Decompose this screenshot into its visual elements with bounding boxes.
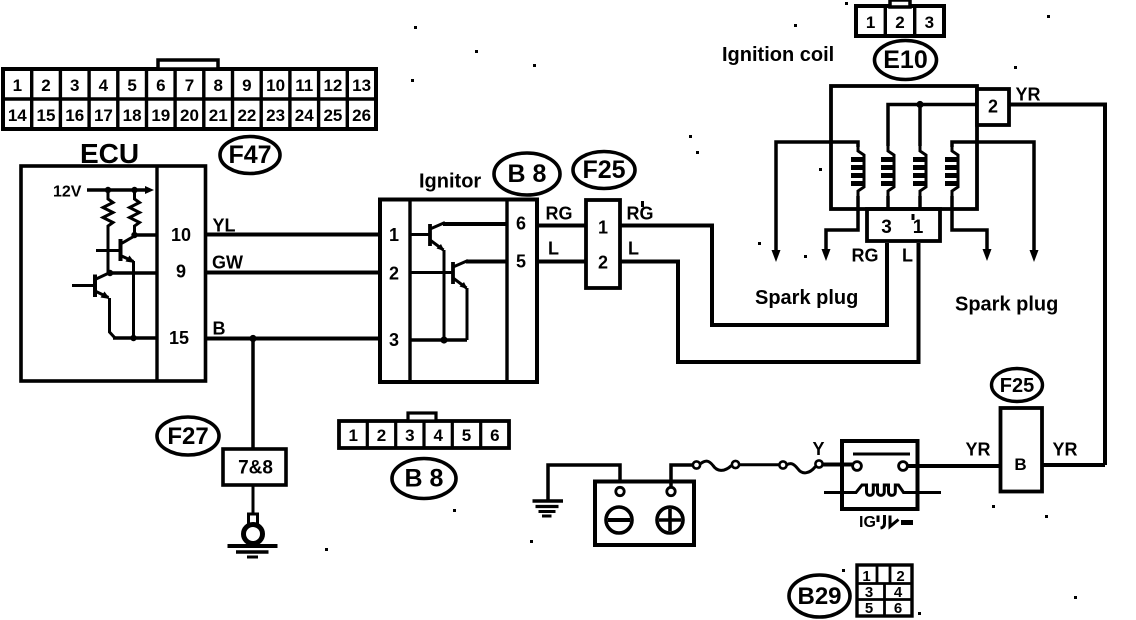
wire Q3 emitter down to pin3 rail (443, 250, 446, 340)
battery (595, 482, 694, 546)
wire battery positive to fusible link (671, 465, 693, 488)
wire RG (ignitor pin6 to F25 pin1) (537, 224, 586, 228)
svg-text:7&8: 7&8 (238, 458, 273, 479)
svg-text:2: 2 (988, 97, 998, 117)
svg-text:Spark plug: Spark plug (955, 294, 1058, 316)
svg-text:3: 3 (70, 76, 79, 95)
svg-text:19: 19 (151, 106, 170, 125)
svg-text:Y: Y (813, 439, 825, 459)
ground ring terminal (244, 514, 263, 544)
transistor Q1 (upper, NPN) (96, 236, 135, 263)
svg-text:1: 1 (13, 76, 22, 95)
svg-text:5: 5 (127, 76, 136, 95)
connector F47 26-pin grid (3, 69, 376, 129)
svg-text:14: 14 (8, 106, 27, 125)
connector B8 keying tab (408, 413, 436, 421)
svg-text:RG: RG (627, 204, 654, 224)
wire Q2 emitter down to pin15 rail (110, 298, 116, 338)
wire L4 bottom to spark plug lead 3 (952, 196, 987, 253)
transistor Q2 (lower, NPN) (72, 273, 110, 300)
wire L (ignitor pin5 to F25 pin2) (537, 260, 586, 264)
svg-text:17: 17 (94, 106, 113, 125)
wire YL (ECU pin10 to ignitor pin1) (206, 233, 381, 237)
arrowhead spark plug 3 (983, 249, 992, 261)
block ignition coil outline (831, 86, 977, 209)
wire node to ECU pin 10 (135, 233, 158, 237)
svg-text:RG: RG (546, 204, 573, 224)
scan speck dots (325, 2, 1077, 615)
wire relay output to connector F25 B (908, 464, 1001, 468)
svg-text:2: 2 (895, 13, 904, 32)
svg-text:8: 8 (213, 76, 222, 95)
coil winding L1 (secondary left) (851, 145, 864, 197)
wire L1 bottom to spark plug lead 2 (826, 196, 858, 253)
wire Q4 emitter down to pin3 rail (466, 288, 469, 340)
svg-text:GW: GW (212, 253, 243, 273)
wire 12V supply rail (87, 188, 148, 192)
coil pin 2 box (977, 89, 1009, 125)
wire Q3 collector to pin 6 (443, 222, 507, 226)
svg-text:6: 6 (894, 600, 902, 617)
connector designator B8 ellipse (ignitor) (494, 153, 560, 195)
connector E10 3-pin box (856, 6, 944, 36)
transistor Q3 (upper, ignitor) (410, 223, 445, 252)
svg-text:16: 16 (65, 106, 84, 125)
svg-text:YR: YR (1016, 85, 1041, 105)
connector B29 6-pin grid (857, 565, 912, 617)
svg-text:26: 26 (352, 106, 371, 125)
wire node to ECU pin 9 (108, 271, 157, 275)
coil winding L4 (secondary right) (945, 145, 958, 197)
junction dot +B rail (916, 101, 923, 108)
wire L from F25 to coil terminal 1 (620, 243, 919, 362)
svg-text:RG: RG (852, 246, 879, 266)
wire Q4 collector to pin 5 (466, 260, 507, 264)
junction dot 12V/R1 (105, 187, 111, 193)
transistor Q4 (lower, ignitor) (410, 261, 468, 290)
relay contact bar (853, 453, 910, 456)
svg-text:5: 5 (462, 426, 471, 445)
svg-text:E10: E10 (883, 46, 927, 74)
svg-text:B 8: B 8 (508, 160, 547, 188)
svg-text:F25: F25 (582, 156, 625, 184)
connector designator B8 ellipse (lower) (392, 459, 456, 499)
connector E10 keying tab (890, 0, 910, 7)
svg-text:B: B (213, 319, 226, 339)
svg-text:2: 2 (598, 253, 608, 273)
wire YR from coil pin2 to relay output (right side run) (1009, 105, 1105, 466)
resistor R1 (left pull-up) (103, 190, 113, 232)
svg-text:2: 2 (377, 426, 386, 445)
wire internal pin 3 rail (410, 338, 467, 342)
relay coil winding (824, 485, 941, 495)
svg-text:3: 3 (925, 13, 934, 32)
wire internal +B rail to coil primaries (888, 105, 977, 147)
svg-text:L: L (902, 246, 913, 266)
svg-text:4: 4 (894, 584, 903, 601)
svg-text:6: 6 (156, 76, 165, 95)
connector designator F25 ellipse (lower) (992, 369, 1043, 402)
svg-text:9: 9 (176, 262, 186, 282)
relay contact terminal right (899, 462, 908, 471)
svg-text:22: 22 (237, 106, 256, 125)
coil terminal box pins 3 and 1 (867, 209, 940, 241)
wire L3 bottom to coil terminal 1 (918, 196, 922, 209)
svg-text:3: 3 (389, 330, 399, 350)
coil winding L3 (primary) (913, 145, 926, 197)
connector designator F25 ellipse (upper) (573, 152, 635, 189)
svg-text:2: 2 (41, 76, 50, 95)
wire pin B to YR riser (1042, 463, 1105, 467)
wire 7&8 to ground ring (252, 485, 255, 518)
wire B (ECU pin15 to ignitor pin3) (206, 337, 381, 341)
svg-text:25: 25 (323, 106, 342, 125)
svg-text:21: 21 (209, 106, 228, 125)
svg-text:L: L (548, 239, 559, 259)
connector F47 keying tab (158, 60, 218, 69)
svg-text:Ignition coil: Ignition coil (722, 44, 834, 66)
svg-text:IG: IG (859, 514, 876, 531)
svg-text:11: 11 (295, 76, 313, 95)
wire L2 bottom to coil terminal 3 (886, 196, 890, 209)
svg-text:6: 6 (516, 214, 526, 234)
relay contact terminal left (853, 462, 862, 471)
wire Y to relay contact (823, 463, 853, 467)
svg-text:12V: 12V (53, 184, 82, 201)
ground bars (chassis) (228, 546, 278, 557)
wire GW (ECU pin9 to ignitor pin2) (206, 271, 381, 275)
wire L1 top to left spark plug lead (776, 142, 858, 254)
connector designator B29 ellipse (789, 575, 850, 617)
arrowhead spark plug 4 (1030, 250, 1039, 262)
svg-text:F27: F27 (167, 423, 208, 450)
ignitor left pin strip divider (408, 200, 411, 383)
svg-text:24: 24 (295, 106, 314, 125)
wire L4 top to right spark plug lead (952, 142, 1034, 254)
connector designator F47 ellipse (220, 137, 280, 174)
svg-text:13: 13 (352, 76, 371, 95)
svg-text:B: B (1014, 455, 1026, 474)
connector B8 6-pin box (339, 421, 509, 448)
connector F25 2-pin box (586, 200, 620, 288)
svg-text:B 8: B 8 (405, 465, 444, 493)
svg-text:1: 1 (866, 13, 875, 32)
wire RG from F25 to coil terminal 3 (620, 226, 887, 326)
coil winding L2 (primary) (881, 145, 894, 197)
svg-text:9: 9 (242, 76, 251, 95)
svg-text:10: 10 (171, 225, 191, 245)
wire R1 to Q2 collector node (107, 232, 110, 273)
svg-text:15: 15 (37, 106, 56, 125)
junction dot emitters / pin3 (440, 336, 447, 343)
svg-text:15: 15 (169, 328, 189, 348)
junction dot Q1 emitter / pin15 rail (130, 335, 136, 341)
connector designator F27 ellipse (157, 417, 219, 455)
svg-text:F47: F47 (228, 141, 271, 169)
svg-text:B29: B29 (797, 583, 841, 610)
svg-text:Ignitor: Ignitor (419, 171, 481, 193)
connector 7&8 box (223, 449, 286, 485)
svg-text:2: 2 (896, 568, 904, 585)
label IG relay (IG + katakana ri-re-) (859, 514, 913, 531)
svg-text:1: 1 (862, 568, 870, 585)
svg-text:4: 4 (99, 76, 109, 95)
wire battery negative to ground (548, 465, 620, 500)
svg-text:12: 12 (323, 76, 342, 95)
block Ignitor outline (380, 200, 537, 383)
connector designator E10 ellipse (875, 41, 937, 80)
tick mark above RG label (641, 201, 644, 207)
svg-text:10: 10 (266, 76, 285, 95)
svg-text:1: 1 (389, 225, 399, 245)
resistor R2 (right pull-up) (130, 190, 140, 232)
junction dot Q2 collector / pin 9 (107, 270, 113, 276)
svg-text:YR: YR (966, 440, 991, 460)
svg-text:7: 7 (185, 76, 194, 95)
wire internal pin 15 rail (113, 336, 157, 340)
svg-text:YR: YR (1053, 440, 1078, 460)
svg-text:5: 5 (865, 600, 873, 617)
svg-text:3: 3 (881, 217, 892, 238)
svg-text:1: 1 (913, 217, 924, 238)
svg-text:1: 1 (348, 426, 357, 445)
svg-text:F25: F25 (1000, 375, 1034, 397)
wire +B drop to coil 3 (918, 105, 922, 147)
ground bars (battery) (533, 501, 564, 516)
fusible link 2 (779, 460, 822, 472)
svg-text:5: 5 (516, 252, 526, 272)
wire B drop to connector 7&8 (251, 339, 255, 450)
svg-text:YL: YL (213, 216, 236, 236)
svg-text:23: 23 (266, 106, 285, 125)
fusible link 1 (693, 461, 739, 470)
block ECU outline (21, 166, 206, 381)
arrowhead spark plug 1 (772, 250, 781, 262)
svg-text:3: 3 (865, 584, 873, 601)
junction dot on wire B (249, 335, 256, 342)
svg-text:Spark plug: Spark plug (755, 287, 858, 309)
svg-text:20: 20 (180, 106, 199, 125)
svg-text:3: 3 (405, 426, 414, 445)
svg-text:18: 18 (123, 106, 142, 125)
svg-text:2: 2 (389, 264, 399, 284)
svg-text:6: 6 (490, 426, 499, 445)
junction dot 12V/R2 (131, 187, 137, 193)
arrowhead spark plug 2 (822, 249, 831, 261)
svg-text:L: L (628, 239, 639, 259)
wire Q1 emitter down to pin15 rail (132, 261, 135, 338)
arrowhead 12V rail (145, 186, 154, 194)
junction dot R2/pin10 (131, 232, 137, 238)
ignitor right pin strip divider (505, 200, 508, 383)
ECU pin strip divider (155, 166, 158, 381)
svg-text:4: 4 (433, 426, 443, 445)
wire between fusible links (739, 463, 780, 466)
svg-text:1: 1 (598, 218, 608, 238)
relay IG box (842, 441, 918, 509)
connector F25 pin B box (1001, 408, 1043, 492)
